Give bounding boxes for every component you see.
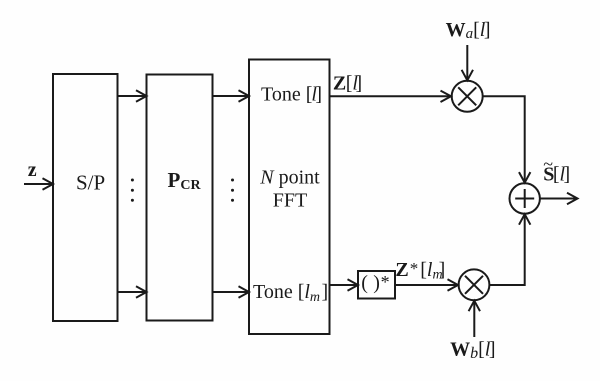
svg-text:FFT: FFT — [273, 190, 307, 212]
svg-text:Z[l]: Z[l] — [333, 73, 362, 95]
svg-text:Tone [lm]: Tone [lm] — [253, 281, 328, 305]
svg-text:N point: N point — [259, 166, 320, 188]
svg-text:()*: ()* — [361, 272, 389, 294]
svg-text:Wb[l]: Wb[l] — [450, 339, 495, 363]
svg-text:Tone [l]: Tone [l] — [261, 84, 322, 106]
svg-text:Z*[lm]: Z*[lm] — [395, 259, 445, 283]
svg-text:~: ~ — [543, 154, 553, 174]
svg-text:z: z — [28, 159, 37, 181]
svg-text:Wa[l]: Wa[l] — [446, 19, 491, 42]
svg-text:PCR: PCR — [168, 168, 202, 193]
svg-text:S/P: S/P — [76, 171, 105, 195]
